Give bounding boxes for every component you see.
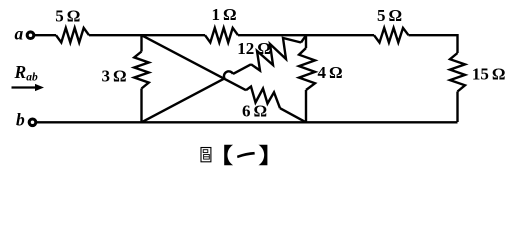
- wire diagonal 2 lower: [142, 78, 225, 122]
- wire hop crossing: [224, 71, 233, 78]
- resistor R4 3ohm: [134, 52, 149, 89]
- resistor R7 4ohm: [299, 48, 315, 90]
- resistor R1 5ohm: [56, 28, 89, 43]
- svg-text:15Ω: 15Ω: [472, 65, 506, 84]
- resistor R3 5ohm: [374, 28, 409, 43]
- wire diagonal 1 lower: [280, 108, 306, 122]
- wire top right corner: [409, 35, 458, 53]
- wire left branch top: [140, 35, 142, 51]
- wire mid branch bottom: [305, 90, 307, 122]
- svg-text:a: a: [15, 23, 24, 43]
- svg-text:12Ω: 12Ω: [237, 39, 271, 58]
- svg-text:b: b: [16, 109, 25, 129]
- terminal a: [27, 32, 34, 39]
- svg-text:3Ω: 3Ω: [101, 66, 126, 85]
- svg-text:Rab: Rab: [14, 62, 38, 84]
- resistor R8 15ohm: [450, 53, 465, 92]
- resistor R5 12ohm: [251, 38, 301, 71]
- wire bottom: [36, 121, 457, 123]
- svg-text:5Ω: 5Ω: [55, 7, 80, 26]
- wire left branch bottom: [140, 89, 142, 123]
- svg-text:6Ω: 6Ω: [242, 102, 267, 121]
- wire top: a to R1: [34, 34, 56, 36]
- terminal b: [29, 119, 36, 126]
- caption bracket open: [224, 145, 233, 165]
- svg-text:4Ω: 4Ω: [317, 63, 342, 82]
- caption bracket close: [259, 145, 268, 165]
- svg-text:5Ω: 5Ω: [377, 6, 402, 25]
- resistor R2 1ohm: [205, 28, 238, 43]
- wire right bottom: [456, 92, 458, 123]
- svg-text:1Ω: 1Ω: [211, 5, 236, 24]
- caption figure one: [201, 145, 267, 165]
- caption glyph tu: [201, 148, 211, 162]
- wire diagonal 1 upper: [142, 35, 247, 90]
- wire mid branch top: [305, 35, 307, 48]
- wire diagonal 2 mid: [233, 64, 251, 74]
- arrow Rab: [12, 86, 37, 88]
- wire top: R1 to node c: [89, 34, 205, 36]
- caption dash one: [237, 152, 255, 158]
- wire diagonal 2 upper: [301, 35, 306, 42]
- resistor R6 6ohm: [246, 87, 280, 109]
- wire top: R2 to R3: [238, 34, 374, 36]
